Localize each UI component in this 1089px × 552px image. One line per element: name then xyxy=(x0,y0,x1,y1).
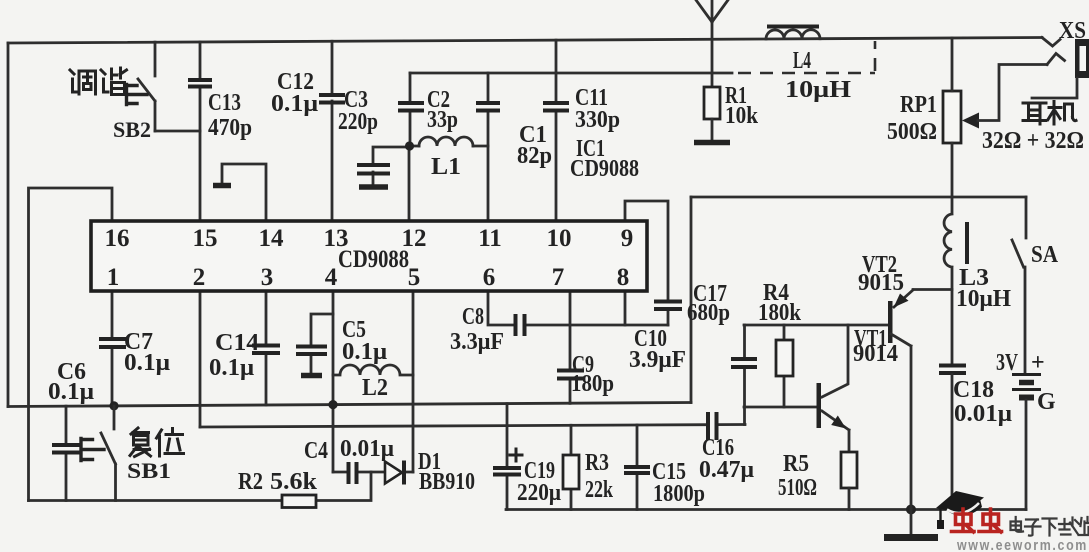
transistor VT2 9015 xyxy=(888,301,893,343)
capacitor C7 xyxy=(99,339,126,347)
svg-text:6: 6 xyxy=(483,264,496,291)
wire line T top of amp section xyxy=(691,196,1026,199)
Chinese label reset for SB1 xyxy=(130,428,184,457)
wire VT1 base line H407 xyxy=(744,406,817,409)
wire bottom rail xyxy=(506,508,1026,511)
svg-text:G: G xyxy=(1037,389,1056,415)
svg-text:33p: 33p xyxy=(427,107,458,133)
wire riser x691 xyxy=(690,197,693,403)
capacitor C13 xyxy=(188,80,212,87)
svg-text:C13: C13 xyxy=(208,90,241,116)
junction node A2 at pin4 line A xyxy=(328,400,337,409)
svg-text:SB2: SB2 xyxy=(113,117,151,142)
wire pin11 C1 path xyxy=(487,73,490,221)
wire C6 vertical xyxy=(65,406,68,500)
wire C4 D1 line pin4 to pin5 xyxy=(333,471,413,474)
wire top supply rail xyxy=(8,38,1042,44)
svg-text:0.1μ: 0.1μ xyxy=(271,91,318,117)
svg-text:1: 1 xyxy=(107,264,120,291)
svg-text:180p: 180p xyxy=(571,371,614,397)
wire pin16 hook xyxy=(29,188,113,501)
svg-text:15: 15 xyxy=(193,225,218,252)
svg-text:R3: R3 xyxy=(585,450,609,476)
capacitor C8 xyxy=(516,314,525,336)
svg-text:L2: L2 xyxy=(362,375,388,401)
varactor diode D1 xyxy=(385,462,402,484)
wire ground cap hook at L1 node xyxy=(373,147,409,184)
svg-text:0.01μ: 0.01μ xyxy=(340,436,394,462)
wire pin8 stub xyxy=(624,292,627,325)
svg-text:14: 14 xyxy=(259,225,285,252)
svg-text:SB1: SB1 xyxy=(127,458,171,483)
svg-text:R5: R5 xyxy=(783,451,809,477)
svg-text:470p: 470p xyxy=(208,115,252,141)
svg-text:16: 16 xyxy=(105,225,130,252)
inductor L4 xyxy=(766,30,820,39)
wire line B horizontal xyxy=(200,425,707,427)
svg-text:9: 9 xyxy=(621,225,634,252)
switch SA xyxy=(1012,197,1026,373)
wire C13 pin15 path xyxy=(199,42,202,221)
svg-text:220p: 220p xyxy=(338,109,378,135)
svg-text:10: 10 xyxy=(547,225,572,252)
wire dashed riser x875 xyxy=(874,41,877,71)
svg-text:5: 5 xyxy=(408,264,421,291)
svg-text:XS: XS xyxy=(1059,18,1086,44)
inductor L2 xyxy=(333,365,413,375)
battery G 3V xyxy=(1012,373,1041,376)
svg-text:BB910: BB910 xyxy=(419,469,475,495)
capacitor to ground near C5 xyxy=(311,314,333,372)
jack socket block xyxy=(1075,39,1089,78)
svg-text:0.47μ: 0.47μ xyxy=(699,457,754,483)
RP1 wiper arrow xyxy=(962,113,979,129)
wire pin7 C9 path xyxy=(569,292,572,403)
svg-text:C8: C8 xyxy=(462,304,484,330)
svg-text:0.01μ: 0.01μ xyxy=(954,401,1012,427)
wire pin2 drop to line B xyxy=(199,292,202,427)
svg-text:2: 2 xyxy=(193,264,206,291)
svg-text:SA: SA xyxy=(1031,242,1059,268)
svg-text:C18: C18 xyxy=(953,377,994,403)
svg-text:www.eeworm.com: www.eeworm.com xyxy=(956,537,1088,552)
capacitor C4 xyxy=(349,462,357,484)
svg-text:3.3μF: 3.3μF xyxy=(450,329,504,355)
capacitor C6 xyxy=(52,445,80,453)
pushbutton SB2 xyxy=(138,42,155,131)
jack sleeve terminal xyxy=(1032,78,1077,98)
earphone jack XS contacts xyxy=(1042,38,1065,65)
svg-text:500Ω: 500Ω xyxy=(887,119,937,145)
wire pin13 C12 path xyxy=(331,41,334,221)
wire pin1 C7 path xyxy=(111,292,114,406)
svg-text:330p: 330p xyxy=(575,107,620,133)
svg-text:680p: 680p xyxy=(687,300,730,326)
wire line A horizontal xyxy=(8,403,691,407)
svg-text:7: 7 xyxy=(552,264,565,291)
svg-text:CD9088: CD9088 xyxy=(570,156,639,182)
wire L1 tail xyxy=(409,145,488,148)
wire pin6 and C8 line xyxy=(488,292,668,325)
svg-text:3.9μF: 3.9μF xyxy=(629,347,686,373)
wire line H73 xyxy=(410,72,732,75)
svg-text:CD9088: CD9088 xyxy=(338,246,409,273)
capacitor C15 xyxy=(624,467,650,473)
wire dashed H73 under L4 xyxy=(738,72,875,75)
ground bar below C5 cap xyxy=(301,373,322,379)
Chinese label earphone xyxy=(1023,102,1076,125)
svg-text:10μH: 10μH xyxy=(785,77,851,103)
svg-text:82p: 82p xyxy=(517,143,552,169)
wire pin10 C11 path xyxy=(555,40,558,221)
svg-text:L4: L4 xyxy=(793,48,811,74)
ground bar below L1 cap xyxy=(359,184,388,190)
wire bottom-left rail xyxy=(29,499,282,502)
svg-text:0.1μ: 0.1μ xyxy=(48,379,94,405)
resistor R4 xyxy=(776,340,793,376)
op-amp U1 IC CD9088 box xyxy=(91,221,647,291)
transistor VT1 9014 xyxy=(817,383,822,428)
svg-text:11: 11 xyxy=(478,225,502,252)
svg-text:9014: 9014 xyxy=(853,341,898,367)
capacitor C11 xyxy=(543,103,569,111)
resistor R2 xyxy=(282,495,316,508)
junction node A1 at C7 SB1 xyxy=(109,401,118,410)
pushbutton SB1 xyxy=(101,406,116,501)
svg-text:9015: 9015 xyxy=(858,270,904,296)
svg-text:C4: C4 xyxy=(304,438,328,464)
wire SB2 bottom link xyxy=(155,130,200,133)
svg-text:L1: L1 xyxy=(431,154,461,180)
wire H325R collector line xyxy=(744,324,888,327)
wire pin9 hook to C10 xyxy=(625,201,668,325)
capacitor C2 xyxy=(398,103,424,111)
ground below VT2 xyxy=(910,510,913,534)
svg-text:180k: 180k xyxy=(758,300,802,326)
capacitor to ground near L1 xyxy=(357,165,390,174)
svg-text:22k: 22k xyxy=(585,477,613,503)
ground bar R1 xyxy=(694,140,730,146)
svg-text:5.6k: 5.6k xyxy=(270,469,318,495)
wire left border xyxy=(7,43,10,407)
potentiometer RP1 xyxy=(943,91,961,143)
capacitor C9 xyxy=(557,371,584,379)
svg-text:R2: R2 xyxy=(238,469,263,495)
capacitor C16 xyxy=(708,412,717,440)
svg-text:10μH: 10μH xyxy=(956,286,1011,312)
svg-text:8: 8 xyxy=(617,264,630,291)
capacitor C19 polarized xyxy=(493,468,521,475)
Chinese label tuning for SB2 xyxy=(70,68,127,95)
resistor R5 xyxy=(841,452,857,488)
wire R2 to D1 node xyxy=(317,472,371,501)
svg-text:0.1μ: 0.1μ xyxy=(342,339,387,365)
capacitor C10 xyxy=(654,302,682,310)
wire R3 leads xyxy=(570,425,573,509)
junction node at VT2 collector ground xyxy=(906,505,916,515)
ground bar pin14 xyxy=(213,183,231,189)
svg-text:0.1μ: 0.1μ xyxy=(124,350,170,376)
wire C19 vertical xyxy=(506,404,509,510)
wire pin14 ground hook xyxy=(222,164,266,221)
svg-text:510Ω: 510Ω xyxy=(778,475,817,501)
capacitor C17 xyxy=(731,359,757,367)
resistor R1 xyxy=(704,87,720,119)
svg-text:4: 4 xyxy=(325,264,338,291)
wire C15 leads xyxy=(636,425,639,510)
antenna xyxy=(696,0,728,87)
svg-text:3V: 3V xyxy=(996,350,1018,376)
wire pin5 vertical xyxy=(412,292,415,472)
resistor R3 xyxy=(563,455,579,489)
capacitor C12 xyxy=(319,95,345,103)
capacitor C18 xyxy=(939,366,966,374)
junction node at L1 C2 pin12 xyxy=(405,141,414,150)
inductor L1 xyxy=(419,137,473,146)
svg-text:10k: 10k xyxy=(725,103,759,129)
inductor L3 xyxy=(944,197,952,364)
svg-text:C14: C14 xyxy=(215,330,259,356)
wire VT2 emitter to L3 xyxy=(913,288,952,291)
watermark chongchong red characters xyxy=(952,509,1002,532)
wire C17 C16 junction vertical xyxy=(743,325,746,425)
capacitor C14 xyxy=(252,346,280,354)
wire line B right of C16 xyxy=(717,423,745,426)
svg-text:+: + xyxy=(1031,350,1045,376)
svg-text:RP1: RP1 xyxy=(900,92,937,118)
svg-text:3: 3 xyxy=(261,264,274,291)
watermark site name characters xyxy=(1011,517,1089,536)
wire pin12 C2 path xyxy=(409,73,410,221)
wire pin3 C14 path xyxy=(265,292,268,405)
wire pin4 vertical xyxy=(332,292,335,472)
svg-text:220μ: 220μ xyxy=(517,480,561,506)
capacitor C1 xyxy=(476,103,500,111)
svg-text:0.1μ: 0.1μ xyxy=(209,355,254,381)
svg-text:32Ω + 32Ω: 32Ω + 32Ω xyxy=(982,128,1084,154)
wire R4 leads xyxy=(783,325,786,407)
svg-text:1800p: 1800p xyxy=(653,481,705,507)
watermark graduation cap icon xyxy=(936,491,984,529)
